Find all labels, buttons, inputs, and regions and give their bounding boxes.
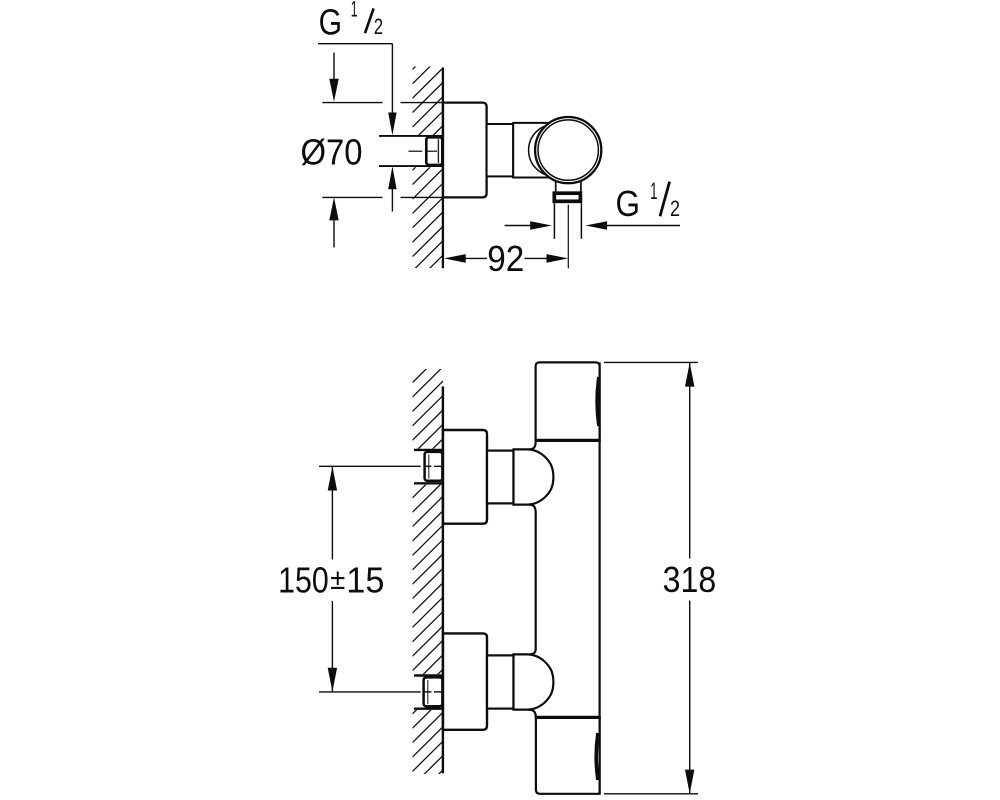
- upper escutcheon: [443, 430, 487, 524]
- dim 318 top arrow: [685, 363, 694, 387]
- outlet union nut band: [554, 193, 580, 201]
- knob back collar circle: [529, 124, 581, 176]
- outlet stub left line: [555, 181, 557, 192]
- dim 318 bottom arrow: [685, 770, 694, 794]
- wall hatching (bottom view): [413, 352, 444, 800]
- outlet pipe left line: [553, 203, 555, 239]
- body left edge between inlets: [535, 512, 537, 650]
- outlet centerline: [567, 205, 569, 269]
- dim 92 right arrow: [525, 257, 547, 259]
- body right edge: [598, 362, 600, 793]
- svg-text:G: G: [616, 183, 641, 224]
- upper nipple G1/2 thread: [425, 452, 443, 481]
- G1/2 outlet dim right arrow: [585, 221, 607, 230]
- svg-text:318: 318: [663, 559, 717, 600]
- outlet pipe right line: [580, 203, 582, 239]
- supply pipe lower outline behind wall: [379, 165, 443, 167]
- lower inlet centerline / extension: [319, 691, 442, 693]
- arrow down to pipe top: [388, 113, 396, 136]
- upper supply pipe outlines: [414, 449, 443, 451]
- wall face line (bottom view): [442, 386, 444, 773]
- bottom cap of body: [536, 717, 600, 793]
- svg-text:G: G: [319, 2, 342, 43]
- fillet cap to upper inlet: [529, 441, 536, 449]
- top cap of body: [536, 362, 600, 440]
- svg-text:±: ±: [330, 563, 345, 596]
- svg-text:1: 1: [351, 0, 358, 22]
- wall face line (top view): [442, 68, 444, 269]
- dim 150 bottom arrow: [328, 668, 337, 692]
- fillet body to lower inlet: [529, 649, 536, 655]
- svg-text:1: 1: [650, 178, 657, 205]
- upper inlet centerline / extension: [319, 465, 442, 467]
- label G 1/2 (top left): [319, 0, 384, 43]
- svg-text:92: 92: [487, 238, 524, 279]
- upper inlet cylinder: [487, 451, 514, 504]
- valve body section B (open right side, hidden by knob): [513, 123, 549, 178]
- dim 92 left arrow: [444, 254, 466, 263]
- dim 070 extension line bottom: [322, 196, 382, 198]
- dim 070 lower arrow: [329, 197, 338, 220]
- lower nipple G1/2 thread: [424, 677, 443, 706]
- wall nipple G1/2 thread (top view): [426, 137, 442, 165]
- escutcheon flange 070 (top view): [443, 103, 487, 198]
- G1/2 outlet dim left arrow: [505, 225, 531, 227]
- bottom cap thick top edge: [535, 716, 601, 719]
- svg-text:15: 15: [346, 560, 384, 601]
- dim 318 extension lines: [604, 361, 698, 363]
- leader line from G 1/2 label: [318, 43, 392, 45]
- supply pipe centerline dashes: [409, 150, 438, 152]
- dim 318 dimension line: [689, 362, 691, 558]
- lower supply pipe outlines: [414, 674, 443, 676]
- valve body section A: [487, 124, 514, 176]
- outlet stub right line: [580, 181, 582, 191]
- thermostat knob outer circle: [535, 117, 601, 183]
- dim 150+-15 dimension line: [331, 466, 333, 559]
- svg-text:2: 2: [374, 14, 383, 39]
- bottom cap shading crescent: [596, 733, 598, 780]
- lower inlet dome union: [514, 654, 554, 709]
- lower inlet cylinder: [487, 655, 514, 708]
- svg-text:2: 2: [670, 196, 680, 221]
- top cap shading crescent: [597, 377, 599, 426]
- svg-text:150: 150: [278, 560, 329, 601]
- arrow up to pipe bottom (G1/2 size): [388, 166, 396, 189]
- dim 070 upper arrow: [333, 53, 335, 80]
- svg-text:Ø70: Ø70: [301, 132, 363, 173]
- lower escutcheon: [443, 633, 487, 729]
- wall hatching (top view): [413, 39, 444, 286]
- top cap thick bottom edge: [535, 439, 601, 442]
- thermostat knob inner circle: [538, 120, 598, 180]
- nipple inner edge line: [437, 139, 439, 163]
- fillet upper inlet to body: [529, 505, 536, 513]
- fillet lower inlet to bottom cap: [528, 710, 536, 718]
- dim 070 extension line top: [322, 102, 382, 104]
- supply pipe upper outline behind wall: [379, 135, 443, 137]
- upper inlet dome union: [514, 449, 554, 504]
- dim 150 top arrow: [328, 466, 337, 490]
- label G 1/2 (right of outlet): [616, 178, 681, 224]
